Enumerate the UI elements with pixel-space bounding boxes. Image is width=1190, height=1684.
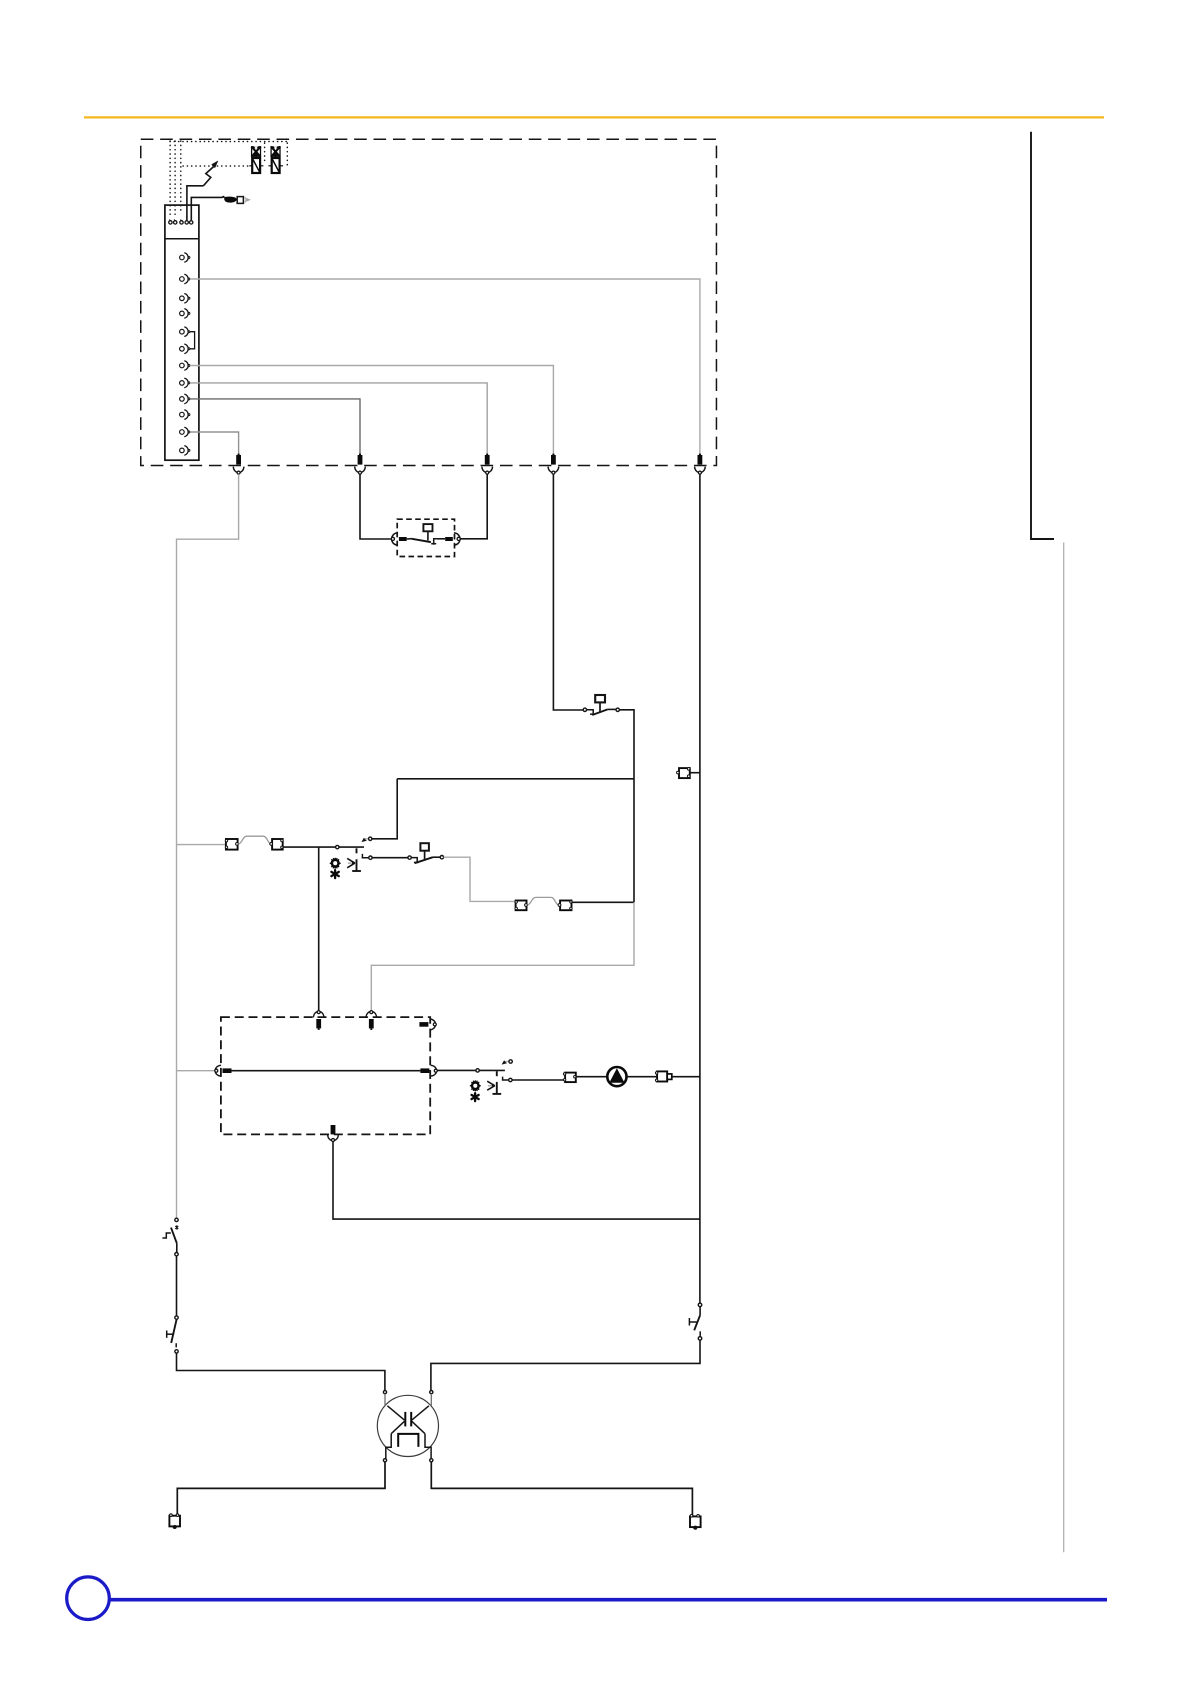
wire terminal 11 to connector X1 (grey): [190, 432, 239, 455]
boiler stat head box: [420, 843, 429, 859]
summer-winter selector greater-than mark: [347, 858, 355, 867]
strip top pin 1: [169, 219, 172, 224]
snowflake icon pump: [472, 1093, 479, 1101]
terminal 10: [180, 410, 190, 420]
limit switch S2 bottom contact circle: [175, 1350, 178, 1353]
pump box top connector A: [313, 1011, 324, 1030]
wire terminal 8 to connector X3 (grey): [190, 383, 487, 455]
room thermostat right pin: [445, 537, 453, 541]
pump connector left box: [563, 1073, 576, 1083]
top orange rule: [84, 116, 1104, 118]
DHW switch S3 upper stub: [699, 1307, 701, 1316]
earth connector right: [690, 1515, 701, 1530]
neutral tap box on right bus: [677, 768, 690, 779]
wire pump box right connector to pump stat: [438, 1069, 505, 1071]
terminal 4: [180, 309, 190, 319]
footer blue rule: [110, 1598, 1108, 1602]
earth connector left: [169, 1514, 180, 1529]
thermal fuse pair1 link curve: [238, 836, 271, 844]
room thermostat left socket arc: [391, 533, 397, 545]
valve line tick left of Y1: [249, 165, 252, 167]
sun icon pump: [471, 1081, 481, 1091]
harness dotted vertical at valve 1: [264, 143, 266, 162]
wire terminal 2 to connector X5 (grey): [190, 279, 700, 455]
wire fuse pair2 to right drop: [572, 901, 635, 903]
pump stat lower throw: [503, 1077, 512, 1082]
pressure switch S1 blade: [171, 1228, 177, 1244]
jumper terminals 5-6: [190, 332, 195, 349]
terminal 1: [180, 253, 190, 263]
boiler stat fixed contact: [411, 858, 418, 863]
gas valve Y1: [251, 146, 261, 173]
terminal 3: [180, 294, 190, 304]
flow switch left contact circle: [583, 708, 586, 711]
wire terminal 7 to connector X4 (grey): [190, 366, 553, 455]
thermal fuse pair1 box B: [270, 839, 283, 850]
flame sensor electrode arc: [245, 197, 250, 202]
boiler stat blade: [415, 857, 433, 863]
motor M brush bracket: [398, 1434, 418, 1447]
right page border black: [1031, 132, 1054, 539]
valve line tick left of Y2: [268, 165, 271, 167]
motor M terminal circles top: [383, 1391, 386, 1394]
strip top pin 5: [190, 221, 193, 224]
terminal 8: [180, 378, 190, 388]
wire pump to right connector: [627, 1076, 656, 1078]
strip top pin 3: [180, 219, 183, 224]
wire selector lower throw to boiler stat: [372, 857, 408, 859]
terminal strip divider: [165, 238, 199, 240]
motor M legs: [386, 1434, 431, 1459]
wire heating branch horizontal: [397, 778, 634, 780]
control unit enclosure (dashed): [141, 139, 717, 465]
pressure switch S1 step mark: [162, 1233, 170, 1238]
room thermostat switch blade: [407, 539, 431, 542]
harness dotted horizontal to valves: [183, 165, 249, 167]
pump box bottom connector: [328, 1125, 339, 1142]
limit switch S2 lower stub: [175, 1343, 177, 1347]
motor M capacitor diagonals: [387, 1406, 429, 1434]
flow switch head box: [595, 695, 605, 712]
harness dotted horizontal top: [170, 141, 288, 143]
terminal 6: [180, 344, 190, 354]
connector X3: [482, 454, 493, 475]
flow switch blade: [592, 709, 607, 715]
ignition harness dotted vertical 1: [169, 141, 171, 215]
terminal 11: [180, 427, 190, 437]
pump box interior line: [232, 1070, 421, 1072]
room thermostat head box: [423, 524, 432, 540]
wire neutral tap stub: [690, 772, 700, 774]
pressure switch S1 bottom contact circle: [175, 1253, 178, 1256]
DHW switch S3 tee mark: [689, 1318, 696, 1326]
room thermostat dashed box: [397, 519, 454, 556]
pump stat upper throw: [502, 1060, 513, 1065]
valve line tick right of Y2: [280, 165, 283, 167]
strip top pin 4: [185, 221, 188, 224]
flame sensor flame blob: [224, 197, 236, 203]
strip top pin 2: [174, 219, 177, 224]
wire grey down to pump box connector B: [371, 902, 634, 1011]
wire S1 to S2: [176, 1256, 178, 1316]
pump box left connector: [215, 1065, 232, 1076]
summer-winter selector lower throw: [362, 854, 372, 860]
wire pump connector to right bus: [672, 1076, 700, 1078]
pressure switch S1 lower stub: [176, 1243, 178, 1252]
pump box top connector B: [366, 1011, 377, 1030]
right gray rule: [1063, 543, 1065, 1553]
pump stat actuator bar: [493, 1071, 502, 1094]
flow switch right contact circle: [616, 708, 619, 711]
motor M capacitor plates: [405, 1412, 411, 1427]
terminal 12: [180, 446, 190, 456]
wire motor left to earth connector left: [177, 1462, 385, 1515]
spark electrode wire: [187, 186, 204, 220]
wire connector X3 to room thermostat right: [459, 474, 487, 539]
connector X1: [233, 454, 244, 475]
wire pump box bottom to right bus: [333, 1142, 700, 1219]
boiler stat left contact circle: [408, 856, 411, 859]
snowflake icon: [331, 870, 338, 878]
pump connector right box: [655, 1071, 671, 1081]
wire S3 to motor right terminal: [431, 1340, 700, 1390]
terminal 2: [180, 274, 190, 284]
room thermostat fixed contact: [431, 539, 437, 545]
connector X5: [695, 454, 706, 475]
motor M body circle: [377, 1395, 438, 1456]
connector X4: [548, 454, 559, 475]
wire flow switch to right drop: [619, 710, 634, 903]
thermal fuse pair1 box A: [225, 839, 238, 850]
wire to pump: [576, 1076, 606, 1078]
ignition harness dotted vertical 2: [174, 141, 176, 215]
flow switch fixed contact: [587, 710, 595, 715]
wire connector X4 to flow switch: [553, 474, 583, 710]
terminal 5: [180, 327, 190, 337]
junction circle on common: [336, 845, 339, 848]
flame sensor wire: [191, 197, 222, 220]
DHW switch S3 bottom contact circle: [698, 1337, 702, 1341]
sun icon: [330, 858, 340, 868]
thermal fuse pair2 box A: [515, 901, 527, 911]
harness dotted vertical at valve 2: [286, 143, 288, 166]
wire motor right to earth connector right: [431, 1462, 692, 1516]
pressure switch S1 contact cross mark: [175, 1225, 178, 1229]
limit switch S2 blade: [171, 1319, 176, 1343]
DHW switch S3 lower stub: [699, 1331, 701, 1336]
wire selector upper throw up: [372, 779, 397, 839]
motor M inner leads top: [385, 1394, 431, 1406]
pump box corner stub connector: [419, 1019, 436, 1030]
gas valve Y2: [271, 146, 281, 173]
flame sensor electrode box: [237, 197, 243, 204]
DHW switch S3 blade: [694, 1315, 700, 1330]
pump control dashed box: [221, 1017, 430, 1134]
wire grey stub to pump box left connector: [177, 1070, 215, 1072]
room thermostat right socket arc: [454, 533, 460, 545]
spark electrode zigzag arrow: [203, 161, 218, 186]
wire grey feed to fuse pair 1: [177, 844, 226, 846]
flow switch wire to right contact: [608, 708, 616, 710]
valve line tick right of Y1: [260, 165, 263, 167]
DHW switch S3 top contact circle: [698, 1303, 702, 1307]
summer-winter selector actuator bar: [352, 848, 361, 871]
wire connector X5 main right bus: [699, 474, 701, 1303]
thermal fuse pair2 link curve: [527, 897, 559, 905]
thermal fuse pair2 box B: [558, 901, 572, 911]
terminal 7: [180, 361, 190, 371]
boiler stat wire to right contact: [433, 856, 440, 858]
pump box right connector: [420, 1065, 437, 1076]
wire S2 to motor left terminal: [177, 1353, 385, 1390]
flame sensor tick: [222, 196, 224, 198]
boiler stat right contact circle: [440, 856, 443, 859]
wire terminal 9 to connector X2 (dark grey): [190, 399, 360, 455]
pressure switch S1 top contact circle: [175, 1218, 178, 1221]
limit switch S2 top contact circle: [175, 1316, 178, 1319]
junction circle pump stat common: [476, 1069, 479, 1072]
wire boiler stat to fuse pair 2 (grey): [444, 857, 516, 901]
room thermostat left pin: [399, 537, 407, 541]
connector X2: [355, 454, 366, 475]
pump P: [607, 1067, 626, 1086]
footer blue circle: [67, 1577, 110, 1620]
ignition harness dotted vertical 3: [180, 141, 182, 214]
wire pump stat to pump connector: [512, 1079, 565, 1081]
wire branch down to pump box connector A: [318, 847, 320, 1011]
room thermostat wire to right pin: [437, 538, 445, 540]
pump stat greater-than mark: [487, 1081, 495, 1090]
summer-winter selector upper throw: [361, 837, 372, 842]
control unit terminal strip body: [165, 205, 199, 460]
motor M terminal circles bottom: [383, 1459, 386, 1462]
limit switch S2 tee mark: [167, 1331, 174, 1338]
wire connector X2 to room thermostat left: [360, 474, 391, 539]
wire connector X1 down-left long grey feed: [177, 474, 239, 1218]
wire fuse pair1 to selector common: [283, 846, 364, 848]
terminal 9: [180, 394, 190, 404]
